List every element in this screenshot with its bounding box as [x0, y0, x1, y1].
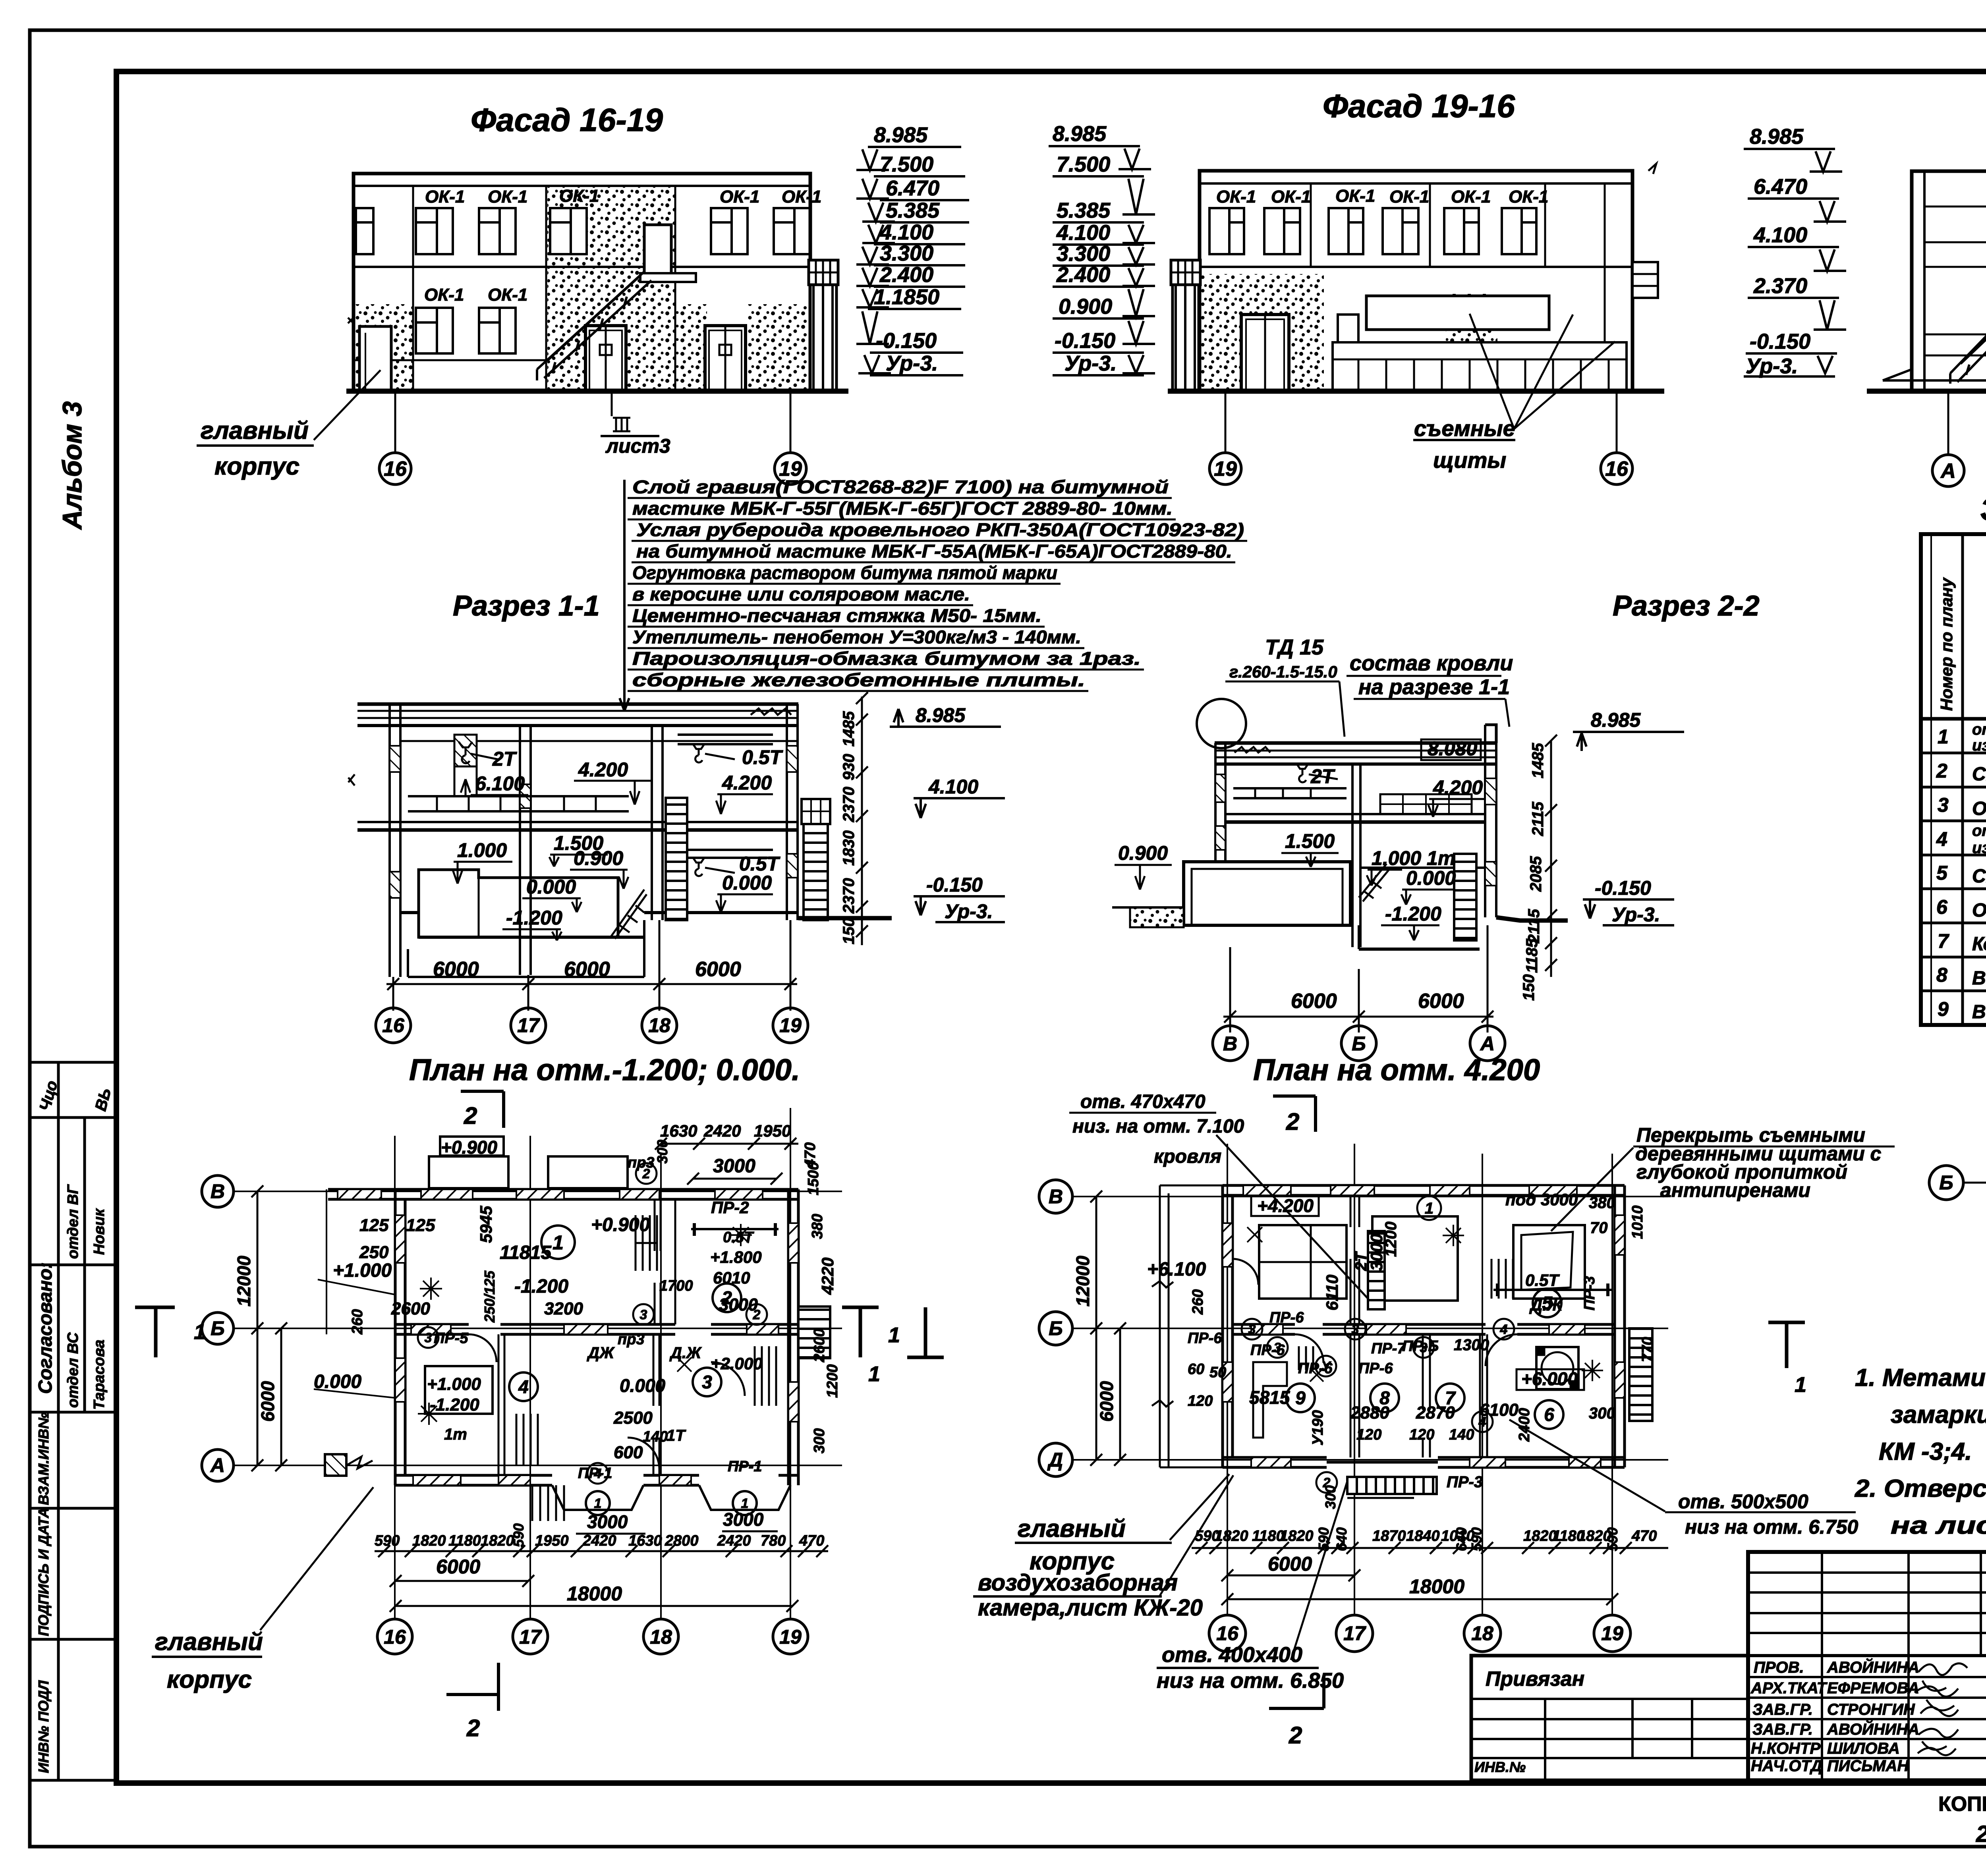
svg-text:19: 19	[1214, 457, 1237, 481]
svg-text:6000: 6000	[1268, 1553, 1312, 1575]
svg-text:0.900: 0.900	[1118, 842, 1168, 864]
svg-text:на разрезе 1-1: на разрезе 1-1	[1358, 675, 1510, 699]
svg-text:5.385: 5.385	[886, 199, 940, 222]
svg-text:4.100: 4.100	[1056, 221, 1110, 245]
svg-text:640: 640	[1453, 1527, 1470, 1551]
svg-text:на битумной мастике МБК-Г-55А(: на битумной мастике МБК-Г-55А(МБК-Г-65А)…	[636, 541, 1232, 562]
svg-text:8.985: 8.985	[874, 123, 928, 147]
svg-text:Огрунтовка раствором битума пя: Огрунтовка раствором битума пятой марки	[632, 562, 1057, 583]
svg-text:ПР-5: ПР-5	[434, 1330, 468, 1347]
svg-text:7: 7	[1445, 1388, 1456, 1408]
svg-text:2600: 2600	[811, 1328, 828, 1363]
svg-text:Венткамера вытяжная: Венткамера вытяжная	[1972, 968, 1986, 989]
svg-text:Разрез 1-1: Разрез 1-1	[453, 590, 600, 622]
svg-text:4: 4	[1478, 1415, 1486, 1430]
svg-text:3: 3	[702, 1372, 712, 1392]
svg-text:16: 16	[1216, 1622, 1239, 1644]
svg-text:250: 250	[359, 1243, 389, 1262]
svg-text:Н.КОНТР: Н.КОНТР	[1751, 1740, 1820, 1757]
svg-text:7: 7	[1938, 930, 1949, 952]
svg-text:2420: 2420	[703, 1121, 741, 1140]
svg-text:1820: 1820	[481, 1532, 514, 1549]
svg-text:ЗАВ.ГР.: ЗАВ.ГР.	[1752, 1701, 1813, 1718]
svg-text:+1.800: +1.800	[710, 1248, 762, 1266]
svg-text:470: 470	[1631, 1528, 1657, 1544]
svg-text:6010: 6010	[713, 1268, 750, 1287]
svg-text:12000: 12000	[1072, 1256, 1093, 1307]
svg-text:0.900: 0.900	[1059, 295, 1112, 318]
svg-text:2. Отверстия в диафрагмах жест: 2. Отверстия в диафрагмах жесткости учте…	[1855, 1475, 1986, 1502]
svg-text:ОК-1: ОК-1	[488, 285, 527, 305]
svg-text:известкового молока: известкового молока	[1972, 839, 1986, 857]
svg-text:2: 2	[464, 1102, 477, 1129]
svg-text:ОК-1: ОК-1	[1509, 187, 1548, 207]
svg-text:Фасад 16-19: Фасад 16-19	[471, 102, 663, 138]
svg-text:А: А	[1480, 1033, 1495, 1055]
svg-text:2370: 2370	[840, 878, 858, 914]
svg-text:Отделение угля на отм.0.000: Отделение угля на отм.0.000	[1972, 798, 1986, 819]
svg-text:1820: 1820	[412, 1532, 446, 1549]
svg-text:3: 3	[1274, 1340, 1281, 1355]
svg-text:3000: 3000	[587, 1511, 628, 1532]
svg-text:1200: 1200	[1382, 1222, 1400, 1257]
svg-text:3: 3	[1938, 794, 1949, 816]
svg-text:300: 300	[1589, 1405, 1615, 1422]
svg-text:-0.150: -0.150	[876, 329, 937, 353]
svg-text:+6.100: +6.100	[1147, 1259, 1206, 1280]
svg-text:ПР-1: ПР-1	[578, 1465, 612, 1482]
svg-text:антипиренами: антипиренами	[1660, 1179, 1810, 1201]
svg-text:16: 16	[384, 457, 407, 481]
svg-text:ОК-1: ОК-1	[1451, 187, 1491, 207]
svg-text:120: 120	[1409, 1426, 1434, 1443]
svg-text:2Т: 2Т	[1310, 765, 1336, 787]
svg-text:КОПИРОВАЛ: КАРШУНОВА: КОПИРОВАЛ: КАРШУНОВА	[1938, 1793, 1986, 1816]
svg-text:18: 18	[1471, 1622, 1493, 1644]
svg-text:19: 19	[1601, 1622, 1623, 1644]
svg-text:Ур-3.: Ур-3.	[945, 900, 993, 923]
svg-text:2: 2	[721, 1287, 732, 1308]
svg-text:Склад угля на отм.0.000: Склад угля на отм.0.000	[1972, 764, 1986, 785]
svg-text:щиты: щиты	[1433, 448, 1506, 473]
svg-text:12000: 12000	[234, 1256, 254, 1307]
svg-text:4: 4	[1936, 828, 1947, 850]
svg-text:9: 9	[1938, 998, 1949, 1020]
svg-text:воздухозаборная: воздухозаборная	[978, 1570, 1178, 1596]
svg-text:ОК-1: ОК-1	[559, 186, 599, 206]
svg-text:5: 5	[1542, 1293, 1553, 1313]
svg-text:16: 16	[382, 1014, 405, 1036]
svg-text:Ур-3.: Ур-3.	[1612, 903, 1660, 926]
svg-text:8.985: 8.985	[1053, 122, 1107, 146]
svg-text:отделение приготовления: отделение приготовления	[1972, 822, 1986, 840]
svg-text:АВОЙНИНА: АВОЙНИНА	[1827, 1720, 1919, 1738]
svg-text:6000: 6000	[1291, 990, 1337, 1013]
svg-text:1200: 1200	[824, 1364, 841, 1398]
svg-text:4.200: 4.200	[722, 772, 772, 794]
svg-text:1485: 1485	[1529, 743, 1547, 778]
svg-text:6.100: 6.100	[475, 772, 525, 795]
svg-text:1: 1	[868, 1362, 880, 1386]
svg-text:3000: 3000	[713, 1156, 755, 1177]
svg-text:замаркированы и разработаны на: замаркированы и разработаны на листах	[1891, 1401, 1986, 1428]
svg-text:3: 3	[425, 1330, 432, 1345]
svg-text:Б: Б	[1352, 1033, 1366, 1055]
svg-text:4.200: 4.200	[1433, 776, 1483, 799]
svg-text:АРХ.ТКАТ: АРХ.ТКАТ	[1750, 1679, 1828, 1697]
svg-text:главный: главный	[155, 1628, 263, 1656]
svg-text:6.470: 6.470	[886, 176, 939, 200]
svg-text:0.000: 0.000	[620, 1375, 666, 1396]
svg-text:6000: 6000	[433, 958, 479, 981]
svg-text:0.000: 0.000	[722, 872, 772, 894]
svg-text:Б: Б	[211, 1317, 224, 1339]
svg-text:18: 18	[648, 1014, 670, 1036]
svg-text:ИНВ№ ПОДЛ: ИНВ№ ПОДЛ	[35, 1680, 52, 1773]
svg-text:18: 18	[650, 1626, 672, 1648]
svg-text:ОК-1: ОК-1	[782, 187, 821, 207]
svg-text:8: 8	[1379, 1388, 1390, 1408]
svg-text:380: 380	[1589, 1194, 1615, 1212]
svg-text:Венткамера приточная: Венткамера приточная	[1972, 1002, 1986, 1023]
svg-text:2: 2	[1289, 1722, 1302, 1749]
svg-text:3000: 3000	[723, 1509, 764, 1530]
svg-text:ОК-1: ОК-1	[1389, 187, 1429, 207]
svg-text:8: 8	[1936, 964, 1947, 986]
svg-text:на листах КЖН-40.0.0.0 и КШИ-4: на листах КЖН-40.0.0.0 и КШИ-42.0.0.0.	[1891, 1512, 1986, 1539]
svg-text:ПР-2: ПР-2	[711, 1198, 749, 1217]
svg-text:У: У	[1321, 1359, 1331, 1374]
svg-text:низ на отм. 6.750: низ на отм. 6.750	[1685, 1516, 1858, 1538]
svg-text:Б: Б	[1939, 1172, 1953, 1194]
svg-text:+6.000: +6.000	[1521, 1368, 1578, 1389]
svg-text:590: 590	[1468, 1527, 1485, 1551]
svg-text:НАЧ.ОТД: НАЧ.ОТД	[1751, 1757, 1822, 1775]
svg-text:5945: 5945	[477, 1206, 495, 1243]
svg-text:Ур-3.: Ур-3.	[1746, 354, 1798, 378]
svg-text:ОК-1: ОК-1	[425, 187, 465, 207]
svg-text:ПР-7: ПР-7	[1371, 1340, 1406, 1357]
svg-text:17: 17	[1343, 1622, 1366, 1644]
svg-text:ПОДПИСЬ И ДАТА: ПОДПИСЬ И ДАТА	[35, 1507, 52, 1636]
svg-text:4.100: 4.100	[1753, 223, 1807, 247]
svg-text:съемные: съемные	[1414, 416, 1515, 441]
svg-text:ЗАВ.ГР.: ЗАВ.ГР.	[1752, 1721, 1813, 1738]
svg-text:17: 17	[519, 1626, 542, 1648]
svg-text:0.5Т: 0.5Т	[723, 1229, 754, 1246]
svg-text:мастике МБК-Г-55Г(МБК-Г-65Г)ГО: мастике МБК-Г-55Г(МБК-Г-65Г)ГОСТ 2889-80…	[632, 498, 1173, 519]
svg-text:ТД 15: ТД 15	[1265, 635, 1324, 659]
svg-text:0.900: 0.900	[574, 847, 623, 869]
svg-text:1010: 1010	[1629, 1205, 1646, 1239]
svg-text:23907-03: 23907-03	[1976, 1821, 1986, 1847]
svg-text:125: 125	[359, 1216, 389, 1235]
svg-text:План на отм. 4.200: План на отм. 4.200	[1253, 1053, 1540, 1087]
svg-text:-0.150: -0.150	[1595, 877, 1651, 899]
svg-text:-0.150: -0.150	[926, 874, 983, 896]
svg-text:18000: 18000	[567, 1583, 622, 1605]
svg-text:+0.900: +0.900	[441, 1137, 497, 1158]
svg-text:ПР-3: ПР-3	[1581, 1276, 1598, 1310]
svg-text:60: 60	[1188, 1361, 1204, 1378]
svg-text:ИНВ.№: ИНВ.№	[1474, 1759, 1526, 1775]
svg-text:6: 6	[1936, 896, 1948, 918]
svg-text:3200: 3200	[544, 1299, 583, 1318]
svg-text:ПР-1: ПР-1	[728, 1458, 762, 1475]
svg-text:2600: 2600	[391, 1299, 430, 1318]
svg-text:А: А	[210, 1454, 225, 1476]
svg-text:Экспликация помещений: Экспликация помещений	[1980, 491, 1986, 527]
svg-text:пр3: пр3	[618, 1331, 645, 1348]
svg-text:6000: 6000	[1418, 990, 1464, 1013]
svg-text:Ур-3.: Ур-3.	[1064, 351, 1117, 375]
svg-text:2085: 2085	[1527, 856, 1545, 892]
svg-text:2400: 2400	[1516, 1408, 1533, 1442]
svg-text:Тарасова: Тарасова	[91, 1339, 108, 1410]
svg-text:В: В	[1223, 1033, 1237, 1055]
svg-text:2: 2	[1286, 1108, 1299, 1135]
svg-text:В: В	[211, 1180, 225, 1202]
svg-text:2: 2	[1936, 760, 1947, 782]
svg-text:1950: 1950	[754, 1121, 791, 1140]
svg-text:Номер по плану: Номер по плану	[1937, 577, 1956, 711]
svg-text:под 3000: под 3000	[1505, 1190, 1578, 1209]
svg-text:0.000: 0.000	[1406, 867, 1456, 889]
svg-text:5.385: 5.385	[1057, 199, 1111, 222]
svg-text:ПР-6: ПР-6	[1188, 1330, 1222, 1347]
svg-text:1820: 1820	[1215, 1528, 1248, 1544]
svg-text:2500: 2500	[613, 1408, 653, 1428]
svg-text:0.000: 0.000	[314, 1371, 361, 1392]
svg-text:г.260-1.5-15.0: г.260-1.5-15.0	[1229, 662, 1337, 681]
svg-text:План на отм.-1.200; 0.000.: План на отм.-1.200; 0.000.	[409, 1053, 800, 1087]
svg-text:Ур-3.: Ур-3.	[886, 351, 938, 375]
svg-text:Фасад 19-16: Фасад 19-16	[1323, 88, 1515, 124]
svg-text:590: 590	[1604, 1527, 1621, 1551]
svg-text:1.000 1т: 1.000 1т	[1372, 847, 1455, 869]
svg-text:250/125: 250/125	[481, 1270, 498, 1323]
svg-text:4220: 4220	[818, 1258, 837, 1295]
svg-text:70: 70	[1590, 1219, 1608, 1237]
svg-text:Услая рубероида кровельного РК: Услая рубероида кровельного РКП-350А(ГОС…	[636, 519, 1244, 540]
svg-text:1т: 1т	[444, 1426, 467, 1443]
svg-text:Новик: Новик	[91, 1208, 108, 1255]
svg-text:2Т: 2Т	[492, 748, 518, 770]
svg-text:780: 780	[761, 1532, 786, 1549]
svg-text:770: 770	[1639, 1337, 1656, 1362]
svg-text:470: 470	[799, 1532, 824, 1549]
svg-text:Согласовано:: Согласовано:	[35, 1262, 56, 1394]
svg-text:ЕФРЕМОВА: ЕФРЕМОВА	[1827, 1679, 1919, 1697]
svg-text:ПР-6: ПР-6	[1358, 1360, 1393, 1377]
svg-text:Цементно-песчаная стяжка М50-: Цементно-песчаная стяжка М50- 15мм.	[632, 605, 1041, 626]
svg-text:ПР-3: ПР-3	[1447, 1473, 1483, 1491]
svg-text:Привязан: Привязан	[1486, 1668, 1584, 1691]
svg-text:А: А	[1940, 459, 1956, 483]
svg-text:1700: 1700	[659, 1278, 693, 1294]
svg-text:6000: 6000	[1096, 1381, 1117, 1422]
svg-text:ОК-1: ОК-1	[424, 285, 464, 305]
svg-text:300: 300	[1322, 1485, 1339, 1509]
svg-text:Утеплитель- пенобетон У=300кг/: Утеплитель- пенобетон У=300кг/м3 - 140мм…	[632, 627, 1081, 647]
svg-text:2115: 2115	[1525, 909, 1543, 944]
svg-text:150: 150	[1520, 974, 1538, 1001]
svg-text:-1.200: -1.200	[1385, 903, 1441, 925]
svg-text:отделение баков: отделение баков	[1972, 721, 1986, 738]
svg-text:1: 1	[1425, 1200, 1433, 1217]
svg-text:4.100: 4.100	[879, 220, 933, 244]
svg-text:4.100: 4.100	[928, 776, 978, 798]
svg-text:7.500: 7.500	[1057, 152, 1110, 176]
svg-text:0.5Т: 0.5Т	[1525, 1271, 1560, 1289]
svg-text:6110: 6110	[1323, 1275, 1341, 1310]
svg-text:260: 260	[1190, 1289, 1206, 1315]
svg-text:ОК-1: ОК-1	[1335, 186, 1375, 206]
svg-text:Д: Д	[1047, 1449, 1063, 1471]
svg-text:АВОЙНИНА: АВОЙНИНА	[1827, 1658, 1919, 1676]
svg-text:140: 140	[1449, 1426, 1474, 1443]
svg-text:Альбом 3: Альбом 3	[57, 401, 87, 530]
svg-text:4: 4	[518, 1376, 529, 1397]
svg-text:2: 2	[753, 1307, 761, 1322]
svg-text:1630: 1630	[628, 1532, 662, 1549]
svg-text:кровля: кровля	[1154, 1146, 1221, 1167]
svg-text:3: 3	[1248, 1322, 1256, 1337]
svg-text:7.500: 7.500	[880, 152, 933, 176]
svg-text:4.200: 4.200	[578, 759, 628, 781]
svg-text:8.985: 8.985	[916, 704, 966, 726]
svg-text:150: 150	[840, 918, 858, 944]
svg-text:2370: 2370	[840, 787, 858, 822]
svg-text:1.000: 1.000	[457, 839, 507, 861]
svg-text:ОК-1: ОК-1	[488, 187, 527, 207]
svg-text:11815: 11815	[500, 1242, 552, 1263]
svg-text:3: 3	[1352, 1322, 1359, 1337]
svg-text:600: 600	[614, 1443, 643, 1462]
svg-text:930: 930	[840, 754, 858, 780]
svg-text:1630: 1630	[660, 1121, 697, 1140]
svg-text:корпус: корпус	[214, 453, 299, 480]
svg-text:ШИЛОВА: ШИЛОВА	[1827, 1740, 1900, 1757]
svg-text:отдел ВС: отдел ВС	[65, 1332, 81, 1408]
svg-text:корпус: корпус	[167, 1666, 252, 1693]
svg-text:известкового теста: известкового теста	[1972, 737, 1986, 754]
svg-text:Коридор: Коридор	[1972, 934, 1986, 955]
svg-text:+0.900: +0.900	[591, 1214, 650, 1235]
svg-text:140: 140	[643, 1428, 668, 1445]
svg-text:2420: 2420	[582, 1532, 616, 1549]
svg-text:0.000: 0.000	[526, 876, 576, 898]
svg-text:+2.000: +2.000	[711, 1354, 763, 1373]
svg-text:лист3: лист3	[605, 435, 670, 457]
svg-text:2800: 2800	[665, 1532, 699, 1549]
svg-text:6000: 6000	[257, 1381, 278, 1422]
svg-text:СТРОНГИН: СТРОНГИН	[1827, 1701, 1915, 1718]
svg-text:Разрез 2-2: Разрез 2-2	[1613, 590, 1760, 622]
svg-text:9: 9	[1295, 1388, 1306, 1408]
svg-text:низ на отм. 6.850: низ на отм. 6.850	[1157, 1669, 1344, 1693]
svg-text:590: 590	[375, 1532, 400, 1549]
svg-text:КМ -3;4.: КМ -3;4.	[1879, 1438, 1972, 1465]
svg-text:+4.200: +4.200	[1257, 1195, 1314, 1216]
svg-text:5: 5	[1936, 862, 1948, 884]
svg-text:120: 120	[1188, 1393, 1213, 1409]
svg-text:1: 1	[194, 1320, 206, 1344]
svg-text:18000: 18000	[1409, 1575, 1464, 1598]
svg-text:300: 300	[654, 1140, 670, 1164]
svg-text:125: 125	[406, 1216, 435, 1235]
svg-text:1820: 1820	[1523, 1528, 1557, 1544]
svg-text:4: 4	[1500, 1322, 1508, 1337]
svg-text:1. Метамические лестницы, площ: 1. Метамические лестницы, площадки и стр…	[1855, 1364, 1986, 1392]
svg-text:сборные железобетонные плиты.: сборные железобетонные плиты.	[632, 670, 1085, 690]
svg-text:камера,лист КЖ-20: камера,лист КЖ-20	[978, 1595, 1203, 1621]
svg-text:0.5Т: 0.5Т	[742, 746, 784, 768]
svg-text:-1.200: -1.200	[430, 1395, 479, 1415]
svg-text:6000: 6000	[436, 1556, 480, 1578]
svg-text:16: 16	[1605, 457, 1629, 481]
svg-text:пр3: пр3	[628, 1154, 655, 1171]
svg-text:120: 120	[1356, 1426, 1381, 1443]
svg-text:Отделение угля на отм.4.200: Отделение угля на отм.4.200	[1972, 900, 1986, 921]
svg-text:2: 2	[466, 1715, 480, 1741]
svg-text:1: 1	[1795, 1373, 1806, 1397]
svg-text:1950: 1950	[535, 1532, 569, 1549]
svg-text:ПРОВ.: ПРОВ.	[1754, 1659, 1804, 1676]
svg-text:главный: главный	[1018, 1515, 1126, 1542]
svg-text:-0.150: -0.150	[1055, 329, 1115, 353]
svg-text:состав кровли: состав кровли	[1350, 651, 1513, 675]
svg-text:У190: У190	[1310, 1410, 1326, 1446]
svg-text:8.985: 8.985	[1591, 709, 1641, 731]
svg-text:1300: 1300	[1454, 1336, 1489, 1354]
svg-text:Слой гравия(ГОСТ8268-82)F 7100: Слой гравия(ГОСТ8268-82)F 7100) на битум…	[632, 477, 1169, 497]
svg-text:1185: 1185	[1523, 938, 1541, 973]
svg-text:8.985: 8.985	[1750, 125, 1804, 149]
svg-text:1870: 1870	[1372, 1528, 1406, 1544]
svg-text:2420: 2420	[717, 1532, 751, 1549]
svg-text:ОК-1: ОК-1	[720, 187, 759, 207]
svg-text:+1.000: +1.000	[427, 1374, 481, 1394]
svg-text:590: 590	[1316, 1527, 1332, 1551]
svg-text:1830: 1830	[840, 830, 858, 866]
svg-text:260: 260	[349, 1309, 366, 1335]
svg-text:2.370: 2.370	[1753, 274, 1807, 298]
svg-text:отв. 500х500: отв. 500х500	[1678, 1490, 1808, 1513]
svg-text:50: 50	[1209, 1364, 1226, 1381]
svg-text:17: 17	[517, 1014, 540, 1036]
svg-text:300: 300	[811, 1428, 828, 1453]
svg-text:6000: 6000	[564, 958, 610, 981]
svg-text:6.470: 6.470	[1754, 175, 1807, 199]
svg-text:Пароизоляция-обмазка битумом з: Пароизоляция-обмазка битумом за 1раз.	[632, 648, 1141, 669]
svg-text:19: 19	[779, 1626, 802, 1648]
svg-text:отв. 400х400: отв. 400х400	[1162, 1643, 1302, 1667]
svg-text:6000: 6000	[695, 958, 741, 981]
svg-text:ДЖ: ДЖ	[587, 1344, 615, 1362]
svg-text:главный: главный	[201, 417, 309, 444]
svg-text:3: 3	[640, 1307, 647, 1322]
svg-text:1: 1	[594, 1496, 602, 1511]
svg-text:1: 1	[1938, 726, 1949, 748]
svg-text:Склад угля на отм. 4.200: Склад угля на отм. 4.200	[1972, 866, 1986, 887]
svg-text:640: 640	[1333, 1527, 1350, 1551]
svg-text:низ. на отм. 7.100: низ. на отм. 7.100	[1072, 1116, 1244, 1137]
svg-text:+1.000: +1.000	[333, 1260, 392, 1281]
svg-text:Д.Ж: Д.Ж	[669, 1344, 702, 1362]
svg-text:2: 2	[642, 1166, 650, 1181]
svg-text:19: 19	[779, 1014, 802, 1036]
